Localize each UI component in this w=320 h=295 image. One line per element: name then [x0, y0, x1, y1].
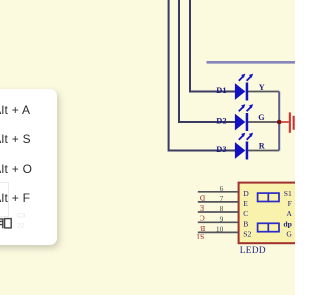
display segment glyph 1	[258, 193, 279, 201]
svg-text:D: D	[243, 189, 249, 198]
svg-text:22: 22	[17, 223, 25, 230]
svg-text:E: E	[199, 203, 204, 212]
wire net D2 (vertical from top, elbow right to LED D2)	[179, 0, 236, 122]
svg-text:6: 6	[220, 184, 224, 193]
svg-text:R: R	[259, 142, 265, 151]
second hanzi: box	[5, 219, 12, 228]
menu item window glyphs (hand drawn CJK)	[0, 89, 57, 245]
wire net D1 (vertical from top, elbow right to LED D1)	[190, 0, 236, 92]
wire D2 cathode to common	[248, 121, 279, 123]
svg-text:B: B	[200, 224, 205, 233]
svg-text:D1: D1	[216, 86, 226, 95]
svg-text:E: E	[243, 199, 248, 208]
svg-text:S1: S1	[196, 232, 204, 241]
svg-text:D2: D2	[216, 117, 226, 126]
wire D3 cathode to common	[248, 150, 279, 152]
LED D2 symbol	[235, 104, 253, 131]
svg-text:C: C	[200, 213, 205, 222]
bus line (top horizontal)	[207, 61, 297, 64]
pin 10 wire	[198, 231, 239, 233]
wire D1 cathode to common	[248, 91, 279, 93]
component U LEDD body	[239, 183, 300, 244]
popup menu	[0, 89, 57, 245]
svg-text:S1: S1	[284, 189, 292, 198]
svg-text:8: 8	[220, 204, 224, 213]
pin 9 wire	[198, 221, 239, 223]
svg-text:C: C	[243, 209, 248, 218]
svg-text:LEDD: LEDD	[240, 245, 266, 255]
LED D3 symbol	[235, 133, 253, 160]
svg-text:D: D	[199, 193, 205, 202]
faint icon box	[0, 182, 9, 217]
svg-text:S2: S2	[243, 230, 251, 239]
junction dot	[277, 120, 282, 125]
svg-text:F: F	[288, 199, 292, 208]
pin 7 wire	[198, 201, 239, 203]
display segment glyph 2	[258, 223, 279, 231]
svg-text:B: B	[243, 220, 248, 229]
partial first hanzi (cut by image edge)	[0, 219, 4, 229]
power symbol (battery, red, cut at edge)	[281, 112, 295, 132]
pin 6 wire	[198, 191, 239, 193]
wire net D3 (vertical from top, elbow right to LED D3)	[169, 0, 236, 151]
svg-text:dp: dp	[283, 220, 291, 229]
svg-text:10: 10	[216, 224, 224, 233]
svg-text:G: G	[258, 113, 265, 122]
wire common vertical	[278, 92, 280, 151]
pin 8 wire	[198, 211, 239, 213]
svg-text:Y: Y	[259, 83, 265, 92]
svg-text:9: 9	[220, 214, 224, 223]
svg-text:7: 7	[220, 194, 224, 203]
svg-text:D3: D3	[216, 145, 226, 154]
svg-text:A: A	[286, 209, 292, 218]
svg-text:C3: C3	[17, 212, 26, 219]
svg-text:G: G	[286, 230, 292, 239]
LED D1 symbol	[235, 74, 253, 101]
